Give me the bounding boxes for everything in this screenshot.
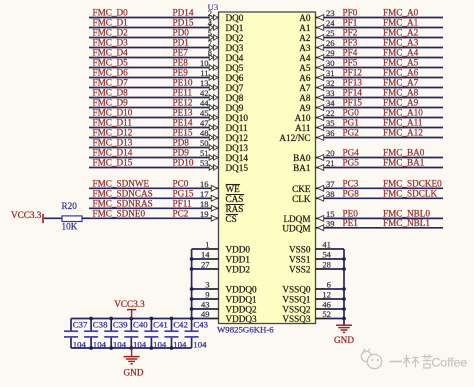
capacitor C43 — [185, 319, 199, 349]
pin 19 (CS) — [200, 209, 217, 221]
svg-text:33: 33 — [326, 88, 335, 98]
wire net FMC_D5 — [89, 67, 219, 69]
pin name RAS (active low) — [226, 204, 245, 214]
svg-text:FMC_D13: FMC_D13 — [93, 138, 133, 148]
svg-text:42: 42 — [200, 88, 209, 98]
svg-text:104: 104 — [113, 339, 127, 349]
svg-text:A11: A11 — [295, 123, 311, 133]
svg-text:A9: A9 — [299, 103, 311, 113]
pin 46 (VSSQ2) wire — [316, 308, 345, 310]
pin 54 number — [322, 250, 331, 260]
pin name VSSQ3 — [282, 314, 310, 324]
pin 6 number — [327, 280, 331, 290]
wire net FMC_A1 — [316, 27, 444, 29]
net label PF15 — [343, 98, 363, 108]
svg-text:DQ9: DQ9 — [226, 103, 244, 113]
svg-text:46: 46 — [322, 300, 331, 310]
pin name A3 — [299, 43, 311, 53]
net label PE10 — [173, 78, 193, 88]
net label FMC_A12 — [383, 128, 423, 138]
svg-text:PG8: PG8 — [343, 188, 360, 198]
svg-text:UDQM: UDQM — [282, 223, 310, 233]
pin name A9 — [299, 103, 311, 113]
wire net FMC_NBL0 — [316, 217, 444, 219]
pin name A7 — [299, 83, 311, 93]
net label PG5 — [343, 158, 360, 168]
pin 14 (VDD1) wire — [192, 258, 219, 260]
wire net FMC_D11 — [89, 127, 219, 129]
label GND (right) — [334, 335, 354, 345]
pin name VDDQ2 — [226, 305, 258, 315]
svg-text:DQ15: DQ15 — [226, 163, 249, 173]
svg-text:PE11: PE11 — [173, 88, 193, 98]
pin 12 number — [322, 290, 331, 300]
svg-text:DQ7: DQ7 — [226, 83, 244, 93]
svg-text:FMC_A11: FMC_A11 — [383, 118, 423, 128]
net label PC0 — [173, 178, 189, 188]
pin 27 (VDD2) wire — [192, 268, 219, 270]
pin name CKE — [292, 184, 311, 194]
net label FMC_D4 — [93, 48, 129, 58]
net label PD9 — [173, 148, 190, 158]
svg-text:VCC3.3: VCC3.3 — [114, 299, 145, 309]
pin name A6 — [299, 73, 311, 83]
svg-text:PF1: PF1 — [343, 18, 358, 28]
pin 32 (A7) — [317, 78, 334, 90]
svg-text:PF13: PF13 — [343, 78, 363, 88]
wire net FMC_A9 — [316, 107, 444, 109]
svg-text:FMC_A10: FMC_A10 — [383, 108, 423, 118]
svg-text:PF15: PF15 — [343, 98, 363, 108]
svg-text:VSS0: VSS0 — [289, 245, 311, 255]
net label PF2 — [343, 28, 358, 38]
net label FMC_D15 — [93, 158, 133, 168]
svg-text:DQ10: DQ10 — [226, 113, 249, 123]
svg-text:9: 9 — [205, 290, 209, 300]
svg-text:FMC_D4: FMC_D4 — [93, 48, 129, 58]
svg-text:BA0: BA0 — [293, 153, 311, 163]
svg-text:49: 49 — [201, 309, 210, 319]
wire net FMC_A6 — [316, 77, 444, 79]
wire net FMC_SDNE0 — [89, 217, 219, 219]
svg-text:PE13: PE13 — [173, 108, 193, 118]
pin 1 number — [205, 240, 209, 250]
svg-text:PE15: PE15 — [173, 128, 193, 138]
svg-text:FMC_A0: FMC_A0 — [383, 8, 419, 18]
net label PD1 — [173, 38, 190, 48]
pin name VDDQ0 — [226, 285, 258, 295]
watermark text — [390, 355, 468, 370]
junction dots on VDD bus — [190, 257, 194, 320]
pin name DQ7 — [226, 83, 244, 93]
wire net FMC_D14 — [89, 157, 219, 159]
svg-text:38: 38 — [326, 189, 335, 199]
svg-text:A3: A3 — [299, 43, 311, 53]
net label PE1 — [343, 218, 359, 228]
svg-text:VDD1: VDD1 — [226, 255, 251, 265]
svg-text:FMC_D6: FMC_D6 — [93, 68, 129, 78]
value 104 (C39) — [113, 339, 127, 349]
net label PF1 — [343, 18, 358, 28]
svg-text:FMC_D14: FMC_D14 — [93, 148, 133, 158]
pin name CAS (active low) — [226, 194, 245, 204]
svg-text:VDDQ2: VDDQ2 — [226, 305, 258, 315]
pin name A12/NC — [279, 133, 310, 143]
pin name VDD0 — [226, 245, 251, 255]
pin 3 number — [205, 280, 209, 290]
net label PD8 — [173, 138, 190, 148]
net label FMC_SDCLK — [383, 188, 437, 198]
net label FMC_D9 — [93, 98, 129, 108]
svg-text:DQ3: DQ3 — [226, 43, 244, 53]
pin 10 (DQ5) — [200, 58, 218, 70]
svg-text:VDD2: VDD2 — [226, 265, 251, 275]
svg-text:FMC_A6: FMC_A6 — [383, 68, 419, 78]
svg-text:3: 3 — [205, 280, 209, 290]
pin name DQ4 — [226, 53, 244, 63]
label C37 — [73, 320, 88, 330]
net label PG0 — [343, 108, 360, 118]
svg-text:VSS1: VSS1 — [289, 255, 311, 265]
ground symbol GND (capacitor bank) — [124, 348, 140, 364]
pin 6 (VSSQ0) wire — [316, 288, 345, 290]
pin name VDDQ3 — [226, 314, 258, 324]
pin name BA0 — [293, 153, 311, 163]
svg-text:DQ8: DQ8 — [226, 93, 244, 103]
svg-text:CLK: CLK — [292, 194, 311, 204]
net label FMC_BA1 — [383, 158, 425, 168]
svg-text:PG2: PG2 — [343, 128, 360, 138]
pin name A5 — [299, 63, 311, 73]
svg-text:FMC_SDNE0: FMC_SDNE0 — [93, 208, 146, 218]
pin name VSSQ1 — [282, 295, 310, 305]
net label FMC_SDCKE0 — [383, 178, 442, 188]
wire R20 to net FMC_SDNE0 — [82, 217, 89, 219]
pin 52 (VSSQ3) wire — [316, 318, 345, 320]
svg-text:11: 11 — [200, 68, 208, 78]
pin name DQ1 — [226, 23, 244, 33]
part number W9825G6KH-6 — [217, 325, 274, 335]
svg-text:PF11: PF11 — [173, 198, 192, 208]
net label FMC_SDNWE — [93, 178, 150, 188]
pin 5 (DQ2) — [208, 28, 218, 40]
wire net FMC_D13 — [89, 147, 219, 149]
pin 34 (A9) — [317, 98, 335, 110]
svg-text:26: 26 — [326, 38, 335, 48]
capacitor C38 — [84, 319, 98, 349]
pin 33 (A8) — [317, 88, 334, 100]
label C40 — [133, 320, 148, 330]
pin 15 (LDQM) — [317, 209, 334, 221]
value 104 (C41) — [153, 339, 167, 349]
pin 30 (A5) — [317, 58, 334, 70]
svg-text:FMC_D7: FMC_D7 — [93, 78, 129, 88]
svg-text:104: 104 — [173, 339, 187, 349]
svg-text:16: 16 — [200, 179, 209, 189]
net label PF14 — [343, 88, 363, 98]
resistor R20 — [62, 216, 82, 222]
svg-text:FMC_D1: FMC_D1 — [93, 18, 129, 28]
pin 17 (CAS) — [200, 189, 217, 201]
svg-text:51: 51 — [200, 148, 209, 158]
svg-text:FMC_A3: FMC_A3 — [383, 38, 419, 48]
svg-text:FMC_D5: FMC_D5 — [93, 58, 129, 68]
svg-text:FMC_D15: FMC_D15 — [93, 158, 133, 168]
svg-text:48: 48 — [200, 128, 209, 138]
net label FMC_D12 — [93, 128, 133, 138]
wire net FMC_D2 — [89, 37, 219, 39]
pin 28 number — [322, 260, 331, 270]
svg-text:53: 53 — [200, 158, 209, 168]
wire net FMC_D12 — [89, 137, 219, 139]
pin 49 (VDDQ3) wire — [192, 318, 219, 320]
wire VDD bus vertical — [191, 249, 193, 319]
wire net FMC_A10 — [316, 117, 444, 119]
svg-text:PF5: PF5 — [343, 58, 358, 68]
pin name A4 — [299, 53, 311, 63]
net label FMC_D7 — [93, 78, 129, 88]
svg-text:12: 12 — [322, 290, 331, 300]
svg-text:37: 37 — [326, 179, 335, 189]
svg-text:FMC_A9: FMC_A9 — [383, 98, 419, 108]
pin 36 (A12/NC) — [317, 128, 334, 140]
wire capacitor bottom rail — [71, 347, 192, 349]
pin name A10 — [295, 113, 311, 123]
svg-text:FMC_A8: FMC_A8 — [383, 88, 419, 98]
pin name CLK — [292, 194, 311, 204]
net label FMC_A2 — [383, 28, 419, 38]
label C39 — [113, 320, 128, 330]
wire net FMC_D0 — [89, 17, 219, 19]
net label FMC_D11 — [93, 118, 133, 128]
pin 39 (UDQM) — [317, 219, 334, 231]
svg-text:14: 14 — [201, 250, 210, 260]
pin 38 (CLK) — [317, 189, 334, 201]
pin name A1 — [299, 23, 311, 33]
svg-text:PE8: PE8 — [173, 58, 189, 68]
svg-text:FMC_D10: FMC_D10 — [93, 108, 133, 118]
svg-text:BA1: BA1 — [293, 163, 311, 173]
net label FMC_D0 — [93, 8, 129, 18]
wire net FMC_A11 — [316, 127, 444, 129]
value 104 (C37) — [73, 339, 87, 349]
svg-text:FMC_A1: FMC_A1 — [383, 18, 419, 28]
label C41 — [153, 320, 168, 330]
label C43 — [193, 320, 208, 330]
svg-text:VDDQ0: VDDQ0 — [226, 285, 258, 295]
net label PC3 — [343, 178, 359, 188]
svg-text:FMC_SDNRAS: FMC_SDNRAS — [93, 198, 153, 208]
svg-text:FMC_D3: FMC_D3 — [93, 38, 129, 48]
svg-text:PD10: PD10 — [173, 158, 194, 168]
net label PE0 — [343, 208, 359, 218]
svg-text:28: 28 — [322, 260, 331, 270]
pin 23 (A0) — [317, 8, 334, 20]
capacitor C37 — [64, 319, 78, 349]
svg-text:PF4: PF4 — [343, 48, 358, 58]
net label PF13 — [343, 78, 363, 88]
pin name A8 — [299, 93, 311, 103]
net label PG1 — [343, 118, 360, 128]
svg-text:RAS: RAS — [226, 204, 244, 214]
svg-text:FMC_A2: FMC_A2 — [383, 28, 419, 38]
value 104 (C42) — [173, 339, 187, 349]
net label FMC_D13 — [93, 138, 133, 148]
pin 49 number — [201, 309, 210, 319]
svg-text:21: 21 — [326, 158, 335, 168]
pin 42 (DQ8) — [200, 88, 218, 100]
pin name VDD2 — [226, 265, 251, 275]
svg-text:PE10: PE10 — [173, 78, 193, 88]
pin name BA1 — [293, 163, 311, 173]
pin name UDQM — [282, 223, 310, 233]
svg-text:VSS2: VSS2 — [289, 265, 311, 275]
svg-text:104: 104 — [193, 339, 207, 349]
wire net FMC_D9 — [89, 107, 219, 109]
net label PD15 — [173, 18, 194, 28]
net label FMC_SDNRAS — [93, 198, 153, 208]
svg-text:27: 27 — [201, 260, 210, 270]
wire net FMC_SDNRAS — [89, 207, 219, 209]
svg-text:FMC_A4: FMC_A4 — [383, 48, 419, 58]
wire net FMC_A5 — [316, 67, 444, 69]
net label PG2 — [343, 128, 360, 138]
svg-text:DQ11: DQ11 — [226, 123, 249, 133]
svg-text:39: 39 — [326, 219, 335, 229]
pin 53 (DQ15) — [200, 158, 218, 170]
svg-text:FMC_A12: FMC_A12 — [383, 128, 423, 138]
pin name VSS0 — [289, 245, 311, 255]
svg-text:VDDQ3: VDDQ3 — [226, 314, 258, 324]
svg-text:FMC_SDNCAS: FMC_SDNCAS — [93, 188, 153, 198]
wire net FMC_BA1 — [316, 167, 444, 169]
pin name DQ11 — [226, 123, 249, 133]
pin 16 (WE) — [200, 179, 217, 191]
pin 52 number — [322, 309, 331, 319]
pin 8 (DQ4) — [208, 48, 218, 60]
value 104 (C43) — [193, 339, 207, 349]
wire net FMC_NBL1 — [316, 227, 444, 229]
pin 46 number — [322, 300, 331, 310]
svg-text:VDDQ1: VDDQ1 — [226, 295, 258, 305]
pin name LDQM — [283, 214, 310, 224]
svg-text:44: 44 — [200, 98, 209, 108]
net label FMC_A8 — [383, 88, 419, 98]
svg-text:DQ6: DQ6 — [226, 73, 244, 83]
svg-text:FMC_D11: FMC_D11 — [93, 118, 133, 128]
svg-text:18: 18 — [200, 199, 209, 209]
svg-text:35: 35 — [326, 118, 335, 128]
wire net FMC_A4 — [316, 57, 444, 59]
net label FMC_A9 — [383, 98, 419, 108]
wire net FMC_D7 — [89, 87, 219, 89]
svg-text:DQ13: DQ13 — [226, 143, 249, 153]
net label PG15 — [173, 188, 194, 198]
net label FMC_D3 — [93, 38, 129, 48]
pin 24 (A1) — [317, 18, 335, 30]
label C42 — [173, 320, 188, 330]
svg-text:FMC_D2: FMC_D2 — [93, 28, 129, 38]
net label PF4 — [343, 48, 358, 58]
net label PF0 — [343, 8, 358, 18]
svg-text:GND: GND — [334, 335, 354, 345]
pin name A11 — [295, 123, 311, 133]
wire net FMC_A7 — [316, 87, 444, 89]
net label FMC_A0 — [383, 8, 419, 18]
svg-text:PC0: PC0 — [173, 178, 189, 188]
net label PC2 — [173, 208, 189, 218]
pin 48 (DQ12) — [200, 128, 218, 140]
net label FMC_A1 — [383, 18, 419, 28]
net label PD10 — [173, 158, 194, 168]
pin 44 (DQ9) — [200, 98, 218, 110]
svg-text:FMC_D0: FMC_D0 — [93, 8, 129, 18]
svg-text:13: 13 — [200, 78, 209, 88]
svg-text:R20: R20 — [62, 201, 78, 211]
pin 45 (DQ10) — [200, 108, 218, 120]
pin name VSSQ0 — [282, 285, 310, 295]
svg-text:VDD0: VDD0 — [226, 245, 251, 255]
svg-text:A10: A10 — [295, 113, 311, 123]
net label FMC_A3 — [383, 38, 419, 48]
pin 2 (DQ0) — [208, 8, 218, 20]
net label FMC_SDNE0 — [93, 208, 146, 218]
pin 7 (DQ3) — [208, 38, 218, 50]
net label FMC_A11 — [383, 118, 423, 128]
pin 12 (VSSQ1) wire — [316, 298, 345, 300]
pin 37 (CKE) — [317, 179, 334, 191]
net label FMC_D8 — [93, 88, 129, 98]
svg-text:17: 17 — [200, 189, 209, 199]
wire net FMC_D1 — [89, 27, 219, 29]
svg-text:34: 34 — [326, 98, 335, 108]
svg-text:DQ2: DQ2 — [226, 33, 244, 43]
pin 47 (DQ11) — [200, 118, 218, 130]
pin 41 (VSS0) wire — [316, 248, 345, 250]
pin name VSS2 — [289, 265, 311, 275]
net label PF5 — [343, 58, 358, 68]
svg-text:DQ14: DQ14 — [226, 153, 249, 163]
svg-text:45: 45 — [200, 108, 209, 118]
pin 41 number — [322, 240, 331, 250]
svg-text:CS: CS — [226, 214, 237, 224]
wire net FMC_D4 — [89, 57, 219, 59]
svg-text:CKE: CKE — [292, 184, 311, 194]
junction dots on GND bus — [342, 257, 346, 320]
label C38 — [93, 320, 108, 330]
net label FMC_BA0 — [383, 148, 425, 158]
svg-text:PC2: PC2 — [173, 208, 189, 218]
svg-text:PD0: PD0 — [173, 28, 190, 38]
svg-text:FMC_SDCLK: FMC_SDCLK — [383, 188, 437, 198]
svg-text:10: 10 — [200, 58, 209, 68]
svg-text:WE: WE — [226, 184, 241, 194]
value 104 (C40) — [133, 339, 147, 349]
pin 35 (A11) — [317, 118, 334, 130]
net label FMC_A10 — [383, 108, 423, 118]
wire net FMC_BA0 — [316, 157, 444, 159]
pin name DQ9 — [226, 103, 244, 113]
junction dots on capacitor rails — [89, 317, 173, 350]
net label PF12 — [343, 68, 363, 78]
svg-text:A8: A8 — [299, 93, 311, 103]
pin 22 (A10) — [317, 108, 334, 120]
wire net FMC_A12 — [316, 137, 444, 139]
pin name DQ3 — [226, 43, 244, 53]
svg-text:104: 104 — [73, 339, 87, 349]
net label FMC_D10 — [93, 108, 133, 118]
svg-text:PF0: PF0 — [343, 8, 358, 18]
